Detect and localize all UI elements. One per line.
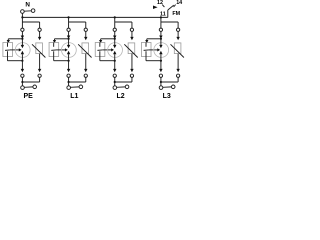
node: branch 2 disconnector tap bottom <box>67 60 69 62</box>
plug pin arrow: branch 2 right top <box>84 32 87 41</box>
contact socket: branch 4 left top <box>159 28 162 31</box>
svg-text:FM: FM <box>172 11 180 17</box>
plug pin arrow: branch 2 left top <box>67 31 70 39</box>
svg-text:12: 12 <box>157 0 163 6</box>
wire: branch 1 top bar <box>22 21 39 23</box>
terminal L1 (feed-through terminal symbol) <box>67 85 83 89</box>
wire: branch 3 top bar <box>115 21 132 23</box>
contact socket: branch 3 left bottom <box>113 74 116 77</box>
terminal N (feed-through terminal symbol) <box>21 9 35 13</box>
wire: main bus <box>22 16 167 18</box>
svg-text:L3: L3 <box>163 93 171 100</box>
plug pin arrow: branch 4 left top <box>159 31 162 39</box>
FM changeover contact (11/12/14) <box>162 5 175 10</box>
contact socket: branch 3 right top <box>130 28 133 31</box>
wire: branch 4 below varistor <box>177 54 179 69</box>
plug pin arrow: branch 1 right top <box>38 32 41 41</box>
plug pin arrow: branch 1 right bottom <box>38 69 41 72</box>
varistor R4 <box>171 43 184 58</box>
terminal L2 (feed-through terminal symbol) <box>113 85 129 89</box>
wire: branch 2 disconnector bottom return <box>54 57 69 61</box>
varistor R1 <box>32 43 45 58</box>
contact socket: branch 4 right bottom <box>176 74 179 77</box>
plug pin arrow: branch 3 left top <box>113 31 116 39</box>
spark gap F4 (gas discharge tube circle) <box>154 43 169 58</box>
actuator arrow: branch 1 disconnector to spark gap <box>10 48 22 51</box>
spark gap F1 (gas discharge tube circle) <box>15 43 30 58</box>
wire: bus drop branch 4 <box>160 17 162 22</box>
spark gap F3 (gas discharge tube circle) <box>108 43 123 58</box>
wire: branch 1 left drop to socket <box>21 22 23 28</box>
wire: branch 2 bottom joiner <box>69 77 86 82</box>
actuator arrow: branch 3 disconnector to spark gap <box>102 48 114 51</box>
wire: branch 3 right drop to socket <box>131 22 133 28</box>
spark gap electrodes branch 3 <box>113 39 116 61</box>
plug pin arrow: branch 4 right bottom <box>176 69 179 72</box>
actuator arrow: branch 2 disconnector to spark gap <box>56 48 68 51</box>
node: branch 1 bottom junction <box>21 81 23 83</box>
disconnector box U1 (thermal disconnect device) <box>3 43 13 57</box>
contact socket: branch 2 right top <box>84 28 87 31</box>
wire: branch 4 left drop to socket <box>160 22 162 28</box>
wire: branch 2 tap to disconnector <box>53 39 69 43</box>
terminal PE (feed-through terminal symbol) <box>21 85 37 89</box>
disconnector box U3 (thermal disconnect device) <box>95 43 105 57</box>
svg-text:PE: PE <box>24 93 34 100</box>
node: bus junction branch 1 <box>21 16 23 18</box>
wire: branch 2 right drop to socket <box>85 22 87 28</box>
plug pin arrow: branch 2 right bottom <box>84 69 87 72</box>
node: branch 3 disconnector tap top <box>114 38 116 40</box>
svg-text:14: 14 <box>176 0 182 6</box>
node: branch 3 bottom junction <box>114 81 116 83</box>
wire: bus drop branch 2 <box>68 17 70 22</box>
contact socket: branch 2 right bottom <box>84 74 87 77</box>
plug pin arrow: branch 3 left bottom <box>113 69 116 72</box>
disconnector box U4 (thermal disconnect device) <box>141 43 151 57</box>
wire: branch 4 disconnector bottom return <box>146 57 161 61</box>
wire: branch 4 top bar <box>161 21 178 23</box>
wire: branch 1 bottom joiner <box>22 77 39 82</box>
wire: branch 3 below varistor <box>131 54 133 69</box>
node: branch 4 bottom junction <box>160 81 162 83</box>
varistor R2 <box>78 43 91 58</box>
contact socket: branch 1 left top <box>21 28 24 31</box>
actuator arrow: branch 4 disconnector to spark gap <box>148 48 160 51</box>
wire: branch 3 disconnector bottom return <box>100 57 115 61</box>
contact socket: branch 1 left bottom <box>21 74 24 77</box>
plug pin arrow: branch 4 left bottom <box>159 69 162 72</box>
node: bus junction branch 2 <box>67 16 69 18</box>
wire: branch 1 left leg lower <box>21 61 23 69</box>
spark gap electrodes branch 1 <box>21 39 24 61</box>
spark gap electrodes branch 4 <box>159 39 162 61</box>
wire: branch 3 tap to disconnector <box>99 39 115 43</box>
svg-text:L1: L1 <box>70 93 78 100</box>
wire: N terminal drop to bus <box>21 13 23 17</box>
contact socket: branch 3 left top <box>113 28 116 31</box>
wire: branch 2 drop to terminal <box>68 82 70 86</box>
wire: branch 3 bottom joiner <box>115 77 132 82</box>
wire: branch 1 drop to terminal <box>21 82 23 86</box>
svg-text:L2: L2 <box>116 93 124 100</box>
wire: branch 4 right drop to socket <box>177 22 179 28</box>
node: bus junction branch 3 <box>114 16 116 18</box>
contact socket: branch 3 right bottom <box>130 74 133 77</box>
node: bus junction branch 4 <box>160 16 162 18</box>
wire: bus drop branch 1 <box>21 17 23 22</box>
node: branch 4 disconnector tap top <box>160 38 162 40</box>
wire: branch 3 left drop to socket <box>114 22 116 28</box>
wire: branch 4 drop to terminal <box>160 82 162 86</box>
actuator triangle for FM contact <box>153 6 158 10</box>
node: branch 2 disconnector tap top <box>67 38 69 40</box>
contact socket: branch 4 left bottom <box>159 74 162 77</box>
node: branch 1 disconnector tap top <box>21 38 23 40</box>
svg-text:N: N <box>25 2 30 9</box>
wire: branch 2 left leg lower <box>68 61 70 69</box>
spark gap electrodes branch 2 <box>67 39 70 61</box>
node: branch 1 disconnector tap bottom <box>21 60 23 62</box>
wire: bus riser to FM contact <box>167 10 169 17</box>
svg-text:11: 11 <box>160 11 166 17</box>
wire: branch 3 drop to terminal <box>114 82 116 86</box>
contact socket: branch 2 left bottom <box>67 74 70 77</box>
contact socket: branch 1 right top <box>38 28 41 31</box>
wire: branch 2 left drop to socket <box>68 22 70 28</box>
wire: branch 2 below varistor <box>85 54 87 69</box>
wire: branch 1 below varistor <box>39 54 41 69</box>
wire: branch 1 right drop to socket <box>39 22 41 28</box>
wire: bus drop branch 3 <box>114 17 116 22</box>
node: branch 3 disconnector tap bottom <box>114 60 116 62</box>
plug pin arrow: branch 4 right top <box>176 32 179 41</box>
terminal L3 (feed-through terminal symbol) <box>159 85 175 89</box>
wire: branch 1 disconnector bottom return <box>8 57 23 61</box>
varistor R3 <box>124 43 137 58</box>
node: branch 2 bottom junction <box>67 81 69 83</box>
plug pin arrow: branch 1 left top <box>21 31 24 39</box>
plug pin arrow: branch 3 right bottom <box>130 69 133 72</box>
contact socket: branch 2 left top <box>67 28 70 31</box>
wire: branch 4 tap to disconnector <box>145 39 161 43</box>
plug pin arrow: branch 3 right top <box>130 32 133 41</box>
spark gap F2 (gas discharge tube circle) <box>61 43 76 58</box>
disconnector box U2 (thermal disconnect device) <box>49 43 59 57</box>
contact socket: branch 1 right bottom <box>38 74 41 77</box>
wire: branch 1 tap to disconnector <box>7 39 23 43</box>
wire: branch 2 top bar <box>69 21 86 23</box>
plug pin arrow: branch 2 left bottom <box>67 69 70 72</box>
contact socket: branch 4 right top <box>176 28 179 31</box>
node: branch 4 disconnector tap bottom <box>160 60 162 62</box>
wire: branch 4 left leg lower <box>160 61 162 69</box>
wire: branch 4 bottom joiner <box>161 77 178 82</box>
wire: branch 3 left leg lower <box>114 61 116 69</box>
plug pin arrow: branch 1 left bottom <box>21 69 24 72</box>
